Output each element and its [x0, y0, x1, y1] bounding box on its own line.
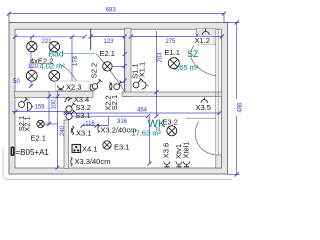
switch S3.1 [66, 110, 76, 120]
leader lamp E2.1 lower [44, 123, 57, 125]
bathtub [31, 65, 72, 90]
svg-text:100: 100 [52, 99, 58, 110]
closet block X1.2 [197, 29, 216, 45]
svg-text:123: 123 [103, 39, 114, 45]
wall bad right lower [90, 84, 92, 91]
svg-text:50: 50 [13, 79, 20, 85]
door curve WK niche [195, 122, 215, 155]
lamp E3.2 [167, 126, 177, 136]
dimension vline x31 [29, 37, 33, 88]
svg-text:E2.1: E2.1 [31, 133, 46, 142]
lamp E2.1 lower [37, 120, 44, 127]
svg-text:=B05+A1: =B05+A1 [16, 148, 50, 157]
dimension chain corridor vline [123, 37, 127, 92]
svg-text:SZ: SZ [187, 49, 199, 59]
svg-text:E2.1: E2.1 [100, 49, 115, 58]
leader lamp E2.1 corridor [112, 65, 125, 67]
svg-text:X3.1: X3.1 [76, 129, 91, 138]
svg-text:178: 178 [73, 55, 79, 66]
dimension 486 [224, 21, 240, 177]
svg-text:116: 116 [85, 121, 95, 127]
switch S3.2 [66, 102, 76, 112]
svg-text:X3.3/40cm: X3.3/40cm [75, 157, 111, 166]
svg-text:X2.1: X2.1 [23, 116, 32, 131]
svg-text:E3.1: E3.1 [114, 143, 129, 152]
door curve SZ [191, 46, 216, 77]
svg-text:S2.1: S2.1 [110, 95, 119, 110]
distribution board =B05+A1 [11, 147, 15, 157]
lamp E2.1 corridor [103, 62, 112, 71]
niche wall block bottom-right [216, 155, 222, 168]
outer wall [9, 23, 228, 175]
closet line horizontal [197, 43, 216, 45]
socket X3.3 [71, 157, 73, 165]
shaft line left [215, 29, 217, 156]
switch S2.1 left wall [19, 98, 29, 108]
socket X3.4 [64, 98, 72, 102]
svg-text:S2.2: S2.2 [90, 63, 99, 78]
door curve corridor [96, 54, 125, 92]
svg-text:203: 203 [157, 52, 163, 63]
leader Bad [63, 53, 96, 55]
data socket X4.1 [72, 145, 81, 153]
antenna socket X3.5 [201, 98, 207, 103]
dimension 116 [81, 116, 109, 127]
svg-text:240: 240 [60, 125, 66, 136]
wall WK left [64, 120, 69, 168]
dimension 123 [89, 35, 127, 39]
wall SZ bottom [122, 92, 222, 97]
label X2.3 box [56, 81, 90, 90]
svg-text:159: 159 [34, 105, 45, 111]
dimension 159 [12, 110, 68, 114]
niche line horizontal [186, 117, 216, 119]
svg-text:X1.1: X1.1 [137, 62, 146, 77]
antenna socket X1.2 [202, 29, 209, 35]
svg-text:316: 316 [117, 119, 128, 125]
bottom sockets X3.6 Xtv1 Xtel1 [164, 162, 190, 167]
sheet border bottom-left [3, 148, 232, 180]
svg-text:275: 275 [165, 39, 176, 45]
dimension 240 [56, 92, 60, 170]
lamp group 4xE2.2 [26, 41, 59, 81]
shaft line right [217, 29, 219, 156]
switch S1.1 + socket X1.1 [133, 78, 149, 90]
svg-text:X3.5: X3.5 [196, 103, 211, 112]
svg-text:E3.2: E3.2 [163, 118, 178, 127]
dimension 203 [155, 31, 159, 118]
washbasin counter [13, 32, 53, 49]
lamp E3.1 [103, 141, 111, 149]
svg-text:464: 464 [137, 107, 148, 113]
svg-text:486: 486 [237, 102, 243, 113]
socket X2.3 [58, 86, 64, 90]
svg-text:X2.3: X2.3 [66, 82, 81, 91]
junction circle corridor [90, 85, 96, 91]
svg-text:S3.1: S3.1 [75, 111, 90, 120]
lamp E1.1 [168, 58, 179, 69]
washbasin [17, 39, 30, 45]
svg-text:4xE2.2: 4xE2.2 [30, 56, 53, 65]
radiator bar [15, 26, 39, 32]
svg-text:X3.6: X3.6 [162, 143, 171, 158]
socket X2.1 left wall [28, 102, 34, 110]
wall bad bottom [15, 91, 93, 97]
dimension 221 [13, 35, 87, 39]
dimension 316 [66, 114, 150, 118]
svg-text:Xtel1: Xtel1 [182, 141, 191, 158]
dimension 178 [70, 35, 74, 92]
svg-text:683: 683 [106, 7, 117, 13]
dimension 464 [64, 111, 222, 115]
toilet fixture [57, 40, 75, 48]
dimension vline x148 [148, 116, 152, 165]
svg-text:X4.1: X4.1 [82, 145, 97, 154]
door arc bad [59, 64, 79, 88]
dimension 683 [7, 12, 226, 23]
closet line vertical [196, 29, 198, 45]
switch S2.2 [92, 79, 102, 89]
wall bad right upper [90, 29, 92, 51]
svg-text:X3.2/40cm: X3.2/40cm [101, 125, 137, 134]
svg-text:E1.1: E1.1 [165, 48, 180, 57]
svg-text:X1.2: X1.2 [195, 36, 210, 45]
dimension 100 [47, 92, 51, 127]
shower screen stub [76, 31, 82, 45]
socket X3.2 [98, 124, 100, 132]
wall corridor-SZ partition [125, 28, 132, 96]
socket X3.1 [71, 126, 74, 134]
dimension 275 [129, 35, 224, 39]
socket X2.2 + switch S2.1 corridor [109, 81, 122, 90]
